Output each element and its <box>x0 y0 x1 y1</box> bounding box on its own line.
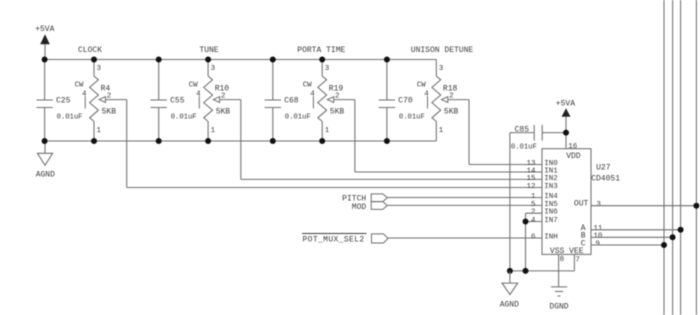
svg-text:3: 3 <box>439 65 444 73</box>
svg-text:1: 1 <box>439 127 444 135</box>
wire U27 IN6 stub to AGND tie <box>526 212 543 214</box>
svg-text:7: 7 <box>575 256 580 264</box>
wire U27 OUT to bus <box>591 205 696 207</box>
svg-text:DGND: DGND <box>549 303 568 312</box>
svg-text:5: 5 <box>531 201 536 209</box>
svg-text:16: 16 <box>568 143 578 151</box>
svg-text:3: 3 <box>211 65 216 73</box>
resistor potentiometer R18 5KB <box>428 60 448 142</box>
svg-text:4: 4 <box>531 217 536 225</box>
svg-text:R19: R19 <box>329 85 344 94</box>
connector flag POT_MUX_SEL2 <box>372 234 389 243</box>
wire vertical bus 3 <box>680 0 682 315</box>
resistor potentiometer R10 5KB <box>199 60 219 142</box>
svg-text:IN3: IN3 <box>544 183 558 191</box>
junction C on bus <box>661 242 667 248</box>
svg-text:8: 8 <box>560 256 565 264</box>
svg-text:OUT: OUT <box>574 200 589 209</box>
svg-text:1: 1 <box>97 127 102 135</box>
svg-text:CW: CW <box>189 82 198 90</box>
label U27 C pin 9 <box>581 239 600 248</box>
svg-text:IN2: IN2 <box>544 175 558 183</box>
ground DGND <box>549 287 568 312</box>
svg-text:VSS VEE: VSS VEE <box>550 247 584 256</box>
junction bottom bus at pot R19 <box>319 138 325 144</box>
svg-text:0.01uF: 0.01uF <box>399 113 425 121</box>
svg-text:C55: C55 <box>170 96 185 105</box>
junction IN7 tie <box>523 219 529 225</box>
junction AGND rail left <box>507 268 513 274</box>
svg-text:C68: C68 <box>284 96 299 105</box>
junction top bus at pot R10 <box>205 57 211 63</box>
svg-text:3: 3 <box>596 201 601 209</box>
wire vertical bus 4 <box>695 0 697 315</box>
wire vertical bus 1 <box>663 0 665 315</box>
ground AGND (left) <box>36 141 55 180</box>
svg-text:4: 4 <box>424 90 429 98</box>
wire U27 VSS pin 8 to DGND <box>558 254 560 287</box>
wire U27 IN7 stub <box>526 221 543 223</box>
svg-text:VDD: VDD <box>566 152 581 161</box>
junction bottom bus at cap C68 <box>270 138 276 144</box>
svg-text:3: 3 <box>325 65 330 73</box>
op-amp U27 CD4051 multiplexer body <box>542 149 591 255</box>
svg-text:CW: CW <box>303 82 312 90</box>
svg-text:CLOCK: CLOCK <box>78 46 102 55</box>
label U27 IN2 pin 15 <box>526 175 557 183</box>
svg-text:12: 12 <box>526 183 535 191</box>
wire U27 B to bus <box>591 236 673 238</box>
junction top bus at cap C55 <box>156 57 162 63</box>
svg-text:9: 9 <box>595 240 600 248</box>
label U27 B pin 10 <box>581 232 603 241</box>
svg-text:C: C <box>581 239 586 248</box>
resistor potentiometer R4 5KB <box>85 60 105 142</box>
label U27 IN4 pin 1 <box>531 193 558 201</box>
svg-text:0.01uF: 0.01uF <box>511 144 537 152</box>
wire R4 wiper to U27 IN3 <box>106 100 543 188</box>
connector flag PITCH <box>371 194 387 202</box>
svg-text:R18: R18 <box>443 85 458 94</box>
wire R19 wiper to U27 IN1 <box>334 100 542 172</box>
svg-text:CW: CW <box>75 82 84 90</box>
junction top bus at cap C25 <box>42 57 48 63</box>
svg-text:UNISON DETUNE: UNISON DETUNE <box>411 46 474 55</box>
junction top bus at cap C70 <box>384 57 390 63</box>
label POT_MUX_SEL2 (active low) <box>302 234 366 245</box>
junction A on bus <box>678 227 684 233</box>
wire U27 VEE pin 7 down <box>573 254 575 271</box>
svg-text:U27: U27 <box>596 163 611 172</box>
svg-text:4: 4 <box>82 90 87 98</box>
connector flag MOD <box>371 202 387 210</box>
svg-text:R4: R4 <box>101 85 111 94</box>
svg-text:0.01uF: 0.01uF <box>171 113 197 121</box>
svg-text:IN7: IN7 <box>544 217 558 225</box>
junction top bus at pot R19 <box>319 57 325 63</box>
svg-text:3: 3 <box>97 65 102 73</box>
svg-text:15: 15 <box>526 175 536 183</box>
label U27 IN7 pin 4 <box>531 217 558 225</box>
capacitor C68 <box>265 60 281 142</box>
svg-text:MOD: MOD <box>352 203 367 212</box>
svg-text:IN5: IN5 <box>544 201 558 209</box>
svg-text:PORTA TIME: PORTA TIME <box>297 46 345 55</box>
junction AGND rail IN6/IN7 tie <box>523 268 529 274</box>
label U27 INH pin 6 <box>531 233 558 241</box>
svg-text:5KB: 5KB <box>102 108 117 117</box>
wire bottom AGND bus <box>45 140 436 142</box>
wire PITCH to U27 IN4 <box>387 197 542 199</box>
wire top +5VA bus <box>45 59 436 61</box>
wire R18 wiper to U27 IN0 <box>448 100 542 165</box>
wire POT_MUX_SEL2 to U27 INH <box>388 237 542 239</box>
junction top bus at pot R4 <box>91 57 97 63</box>
label U27 IN0 pin 13 <box>526 160 558 168</box>
svg-text:1: 1 <box>325 127 330 135</box>
resistor potentiometer R19 5KB <box>313 60 333 142</box>
capacitor C85 <box>510 125 566 141</box>
svg-text:POT_MUX_SEL2: POT_MUX_SEL2 <box>303 236 365 245</box>
label U27 IN3 pin 12 <box>526 183 558 191</box>
junction bottom bus at cap C55 <box>156 138 162 144</box>
svg-text:AGND: AGND <box>500 300 519 309</box>
capacitor C70 <box>379 60 395 142</box>
wire U27 C to bus <box>591 244 664 246</box>
svg-text:4: 4 <box>196 90 201 98</box>
wire AGND rail horizontal <box>510 270 575 272</box>
junction bottom bus at cap C25 <box>42 138 48 144</box>
svg-text:1: 1 <box>531 193 536 201</box>
label U27 IN6 pin 2 <box>531 209 558 217</box>
wire MOD to U27 IN5 <box>387 204 542 206</box>
svg-text:INH: INH <box>544 234 558 242</box>
label U27 OUT pin 3 <box>574 200 602 209</box>
power +5VA (left) <box>35 25 54 59</box>
junction bottom bus at cap C70 <box>384 138 390 144</box>
svg-text:5KB: 5KB <box>444 108 459 117</box>
junction B on bus <box>670 234 676 240</box>
wire R10 wiper to U27 IN2 <box>220 100 542 180</box>
label U27 IN1 pin 14 <box>526 167 558 175</box>
svg-text:C25: C25 <box>56 96 71 105</box>
wire vertical bus 2 <box>672 0 674 315</box>
label U27 IN5 pin 5 <box>531 201 558 209</box>
svg-text:5KB: 5KB <box>216 108 231 117</box>
svg-text:0.01uF: 0.01uF <box>285 113 311 121</box>
svg-text:AGND: AGND <box>36 171 55 180</box>
svg-text:R10: R10 <box>215 85 230 94</box>
svg-text:1: 1 <box>211 127 216 135</box>
junction VDD node <box>563 130 569 136</box>
junction bottom bus at pot R4 <box>91 138 97 144</box>
junction top bus at cap C68 <box>270 57 276 63</box>
svg-text:C85: C85 <box>515 125 530 134</box>
junction bottom bus at pot R10 <box>205 138 211 144</box>
wire AGND rail vertical (C85 to rail) <box>509 133 511 271</box>
junction OUT on bus <box>693 203 699 209</box>
svg-text:IN4: IN4 <box>544 193 558 201</box>
svg-text:2: 2 <box>531 209 536 217</box>
label U27 A pin 11 <box>581 224 603 233</box>
capacitor C25 <box>36 60 52 142</box>
wire U27 A to bus <box>591 229 681 231</box>
ground AGND (right) <box>500 271 519 309</box>
svg-text:C70: C70 <box>398 96 413 105</box>
svg-text:+5VA: +5VA <box>556 100 575 109</box>
svg-text:CD4051: CD4051 <box>591 175 620 184</box>
svg-text:IN6: IN6 <box>544 209 558 217</box>
wire IN6/IN7 tie-down vertical <box>525 213 527 271</box>
svg-text:6: 6 <box>531 233 536 241</box>
svg-text:TUNE: TUNE <box>199 46 218 55</box>
svg-text:4: 4 <box>310 90 315 98</box>
svg-text:CW: CW <box>417 82 426 90</box>
svg-text:5KB: 5KB <box>330 108 345 117</box>
svg-text:0.01uF: 0.01uF <box>57 113 83 121</box>
svg-text:+5VA: +5VA <box>35 25 54 34</box>
power +5VA (right, U27 VDD) <box>556 100 575 149</box>
capacitor C55 <box>151 60 167 142</box>
